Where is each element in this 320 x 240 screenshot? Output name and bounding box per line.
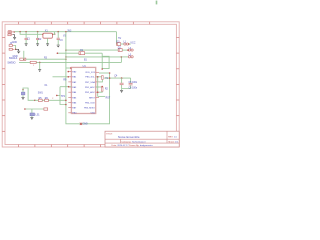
wire long vertical left	[66, 32, 110, 124]
ground under battery	[13, 37, 16, 39]
frame tick top 6	[100, 22, 102, 25]
title block divider row2	[105, 142, 179, 144]
wire SWDIO to ground	[39, 62, 41, 69]
wire bottom left net	[25, 108, 44, 110]
ground under crystal	[46, 44, 49, 46]
node J2 junction	[15, 49, 17, 51]
wire mid line L53	[57, 52, 102, 54]
svg-text:2: 2	[52, 98, 53, 100]
svg-text:SW1: SW1	[38, 93, 44, 95]
ground under C1	[25, 44, 28, 46]
node VCC junction at battery	[14, 31, 16, 33]
frame tick top 4	[67, 22, 69, 25]
wire VCC rail	[14, 31, 116, 33]
off-sheet green mark	[156, 1, 158, 5]
wire LED1 stub	[129, 43, 131, 45]
node R2 top dot	[101, 86, 103, 88]
LED3	[128, 56, 133, 58]
wire SW1 bottom to ground	[22, 95, 24, 97]
wire SW1 top stub	[22, 90, 24, 92]
capacitor C5	[122, 78, 133, 88]
frame tick left 7	[2, 130, 5, 132]
battery BT1 positive terminal	[8, 31, 14, 34]
wire J2 pin1 to node	[14, 46, 16, 50]
svg-text:VDD_3V3: VDD_3V3	[85, 72, 96, 74]
frame tick bottom 6	[100, 145, 102, 148]
node IC left pin1 dot	[68, 71, 70, 73]
node net stub dot	[56, 95, 58, 97]
frame tick top 3	[50, 22, 52, 25]
wire decoupling row right of IC	[104, 77, 131, 79]
wire buzzer drop	[31, 109, 33, 113]
node capacitor C4 junction	[121, 77, 123, 79]
svg-text:PB4_SCK: PB4_SCK	[85, 102, 95, 104]
wire SW1 to row	[23, 88, 35, 100]
svg-text:VSS: VSS	[91, 113, 96, 115]
node L57 L62 join	[121, 56, 123, 58]
svg-text:GND: GND	[83, 123, 88, 125]
svg-text:PB1_ADC: PB1_ADC	[85, 86, 95, 89]
wire NRST to label	[98, 95, 106, 97]
wire loop rectangle	[102, 56, 109, 68]
node rail dot C	[37, 31, 39, 33]
resistor R3 inline	[20, 58, 26, 60]
frame tick bottom 2	[34, 145, 36, 148]
frame tick top 2	[34, 22, 36, 25]
diode D1 inline	[79, 52, 85, 55]
node SWCLK to vertical	[65, 58, 67, 60]
frame tick bottom 3	[50, 145, 52, 148]
resistor R5	[38, 99, 42, 101]
frame tick left 5	[2, 99, 5, 101]
node LED1 dot	[128, 43, 130, 45]
wire bracket vertical	[60, 87, 66, 105]
svg-text:1: 1	[33, 65, 34, 67]
svg-text:C5 100n: C5 100n	[129, 82, 138, 84]
sheet frame inner	[5, 24, 176, 144]
wire crystal right to rail	[53, 32, 55, 35]
svg-text:TP1: TP1	[61, 96, 66, 98]
svg-text:1: 1	[115, 77, 116, 79]
frame tick bottom 9	[149, 145, 151, 148]
IC left pin names	[72, 71, 77, 115]
svg-text:SWCLK: SWCLK	[9, 57, 18, 60]
title block outline	[105, 131, 179, 147]
svg-text:C6 100n: C6 100n	[129, 87, 138, 89]
node resistor row start	[34, 100, 36, 102]
wire stub above SWCLK	[23, 51, 25, 59]
node LED2 dot	[127, 49, 129, 51]
node L53 start	[57, 52, 59, 54]
crystal X1 pin left	[42, 34, 43, 35]
resistor R7	[44, 108, 48, 110]
node NRST bottom	[97, 91, 99, 93]
frame tick right 1	[176, 37, 179, 39]
frame tick left 1	[2, 37, 5, 39]
svg-text:Date: 2024-07-17 Drawn By: bod: Date: 2024-07-17 Drawn By: bodgemaster	[112, 144, 153, 147]
frame tick bottom 8	[132, 145, 134, 148]
ground under SW1	[21, 97, 24, 99]
wire D3 to LED1	[121, 43, 124, 45]
wire IC left pin2	[53, 76, 69, 78]
LED1	[124, 43, 129, 45]
wire crystal ground stub	[47, 38, 49, 43]
IC U1 body	[71, 67, 95, 113]
node SWDIO dot	[39, 62, 41, 64]
connector J2 pin 1	[9, 45, 14, 47]
node rail dot F	[65, 31, 67, 33]
frame tick right 5	[176, 99, 179, 101]
frame tick left 2	[2, 52, 5, 54]
node SW1 top dot	[22, 89, 24, 91]
frame tick left 4	[2, 83, 5, 85]
frame tick right 7	[176, 130, 179, 132]
buzzer B1 body	[30, 113, 35, 116]
ground under C3	[57, 45, 60, 47]
node decoupling row left	[109, 77, 111, 79]
IC left pin stubs	[68, 72, 71, 113]
frame tick right 2	[176, 52, 179, 54]
frame tick top 8	[132, 22, 134, 25]
capacitor C4	[120, 78, 124, 90]
frame tick bottom 7	[116, 145, 118, 148]
ground under SWDIO	[38, 70, 41, 72]
svg-text:PB5_MISO: PB5_MISO	[84, 108, 95, 110]
frame tick right 6	[176, 115, 179, 117]
wire L57 to LED3	[121, 56, 128, 58]
wire bracket to IC pin row4	[60, 86, 71, 88]
ground under J2	[17, 51, 20, 53]
frame tick right 3	[176, 68, 179, 70]
svg-text:NRST: NRST	[89, 97, 96, 99]
node bracket pin dot	[68, 86, 70, 88]
svg-text:SWDIO: SWDIO	[7, 61, 15, 64]
wire SWCLK	[19, 58, 66, 60]
wire L53 corner down	[101, 53, 103, 69]
LED2	[128, 49, 133, 51]
node bottom left stub	[24, 108, 26, 110]
wire mid line L50	[66, 49, 118, 51]
wire row1 diode D3	[117, 43, 121, 46]
resistor R1 right of IC	[96, 76, 104, 82]
node rail dot B	[25, 31, 27, 33]
frame tick bottom 1	[18, 145, 20, 148]
wire mid line L57	[66, 56, 122, 58]
node L57 start	[65, 56, 67, 58]
title block divider vertical	[166, 131, 168, 143]
IC right pin stubs	[96, 72, 99, 97]
svg-text:TITLE:: TITLE:	[106, 133, 113, 135]
svg-text:PB6_SCL: PB6_SCL	[85, 77, 95, 79]
frame tick bottom 5	[83, 145, 85, 148]
ground under C2	[36, 44, 39, 46]
crystal X1 body	[43, 33, 53, 38]
wire second rail	[20, 32, 42, 35]
wire SWDIO long	[19, 61, 121, 63]
node loop bottom dot	[101, 68, 103, 70]
svg-text:REV: 1.0: REV: 1.0	[168, 137, 177, 139]
pushbutton SW1 body	[21, 92, 25, 95]
node L50 start	[65, 49, 67, 51]
capacitor C3 drop	[57, 32, 60, 45]
wire resistor row	[35, 99, 66, 101]
svg-text:3V3: 3V3	[67, 30, 72, 32]
svg-text:Company: Techromancer: Company: Techromancer	[121, 141, 146, 144]
title block divider company	[119, 139, 121, 143]
sheet frame outer	[2, 22, 179, 147]
connector J2 pin 2	[9, 48, 14, 50]
node row end dot	[65, 100, 67, 102]
wire VCC rail drop right	[116, 32, 118, 44]
node IC left pin2 dot	[68, 76, 70, 78]
frame tick bottom 4	[67, 145, 69, 148]
node right vertical top	[109, 72, 111, 74]
wire buzzer to ground	[31, 116, 33, 117]
node SWCLK dot	[23, 58, 25, 60]
wire J2 node to ground	[16, 49, 19, 51]
frame tick top 5	[83, 22, 85, 25]
wire D2 to LED2	[122, 49, 128, 51]
capacitor C2 drop	[36, 32, 39, 44]
IC right pin names	[84, 72, 96, 115]
frame tick top 1	[18, 22, 20, 25]
svg-text:GND: GND	[12, 42, 17, 44]
wire battery minus to ground	[13, 35, 15, 38]
node bracket bottom join	[65, 104, 67, 106]
frame tick left 6	[2, 115, 5, 117]
title block divider row1	[105, 138, 179, 140]
diode D2	[118, 49, 122, 52]
svg-text:Noise Ensemble: Noise Ensemble	[118, 135, 140, 139]
frame tick right 4	[176, 83, 179, 85]
node rail dot D	[54, 33, 56, 35]
wire IC right pin row1	[99, 72, 110, 74]
svg-text:RST: RST	[106, 98, 111, 100]
crystal X1 pin right	[52, 34, 53, 35]
frame tick left 3	[2, 68, 5, 70]
node IC pin VDD dot	[70, 67, 72, 69]
svg-text:LS1: LS1	[36, 115, 41, 117]
resistor R4 inline	[30, 61, 36, 63]
node rail dot A	[19, 31, 21, 33]
frame tick top 9	[149, 22, 151, 25]
wire to IC pin VDD	[66, 67, 72, 69]
svg-text:PB2_ADC: PB2_ADC	[85, 91, 95, 94]
capacitor C1 drop	[25, 32, 28, 44]
wire NRST vertical	[97, 77, 99, 97]
svg-text:VCC: VCC	[130, 41, 135, 44]
frame tick top 7	[116, 22, 118, 25]
ground under buzzer	[30, 117, 33, 119]
svg-text:PB7_SDA: PB7_SDA	[85, 81, 95, 84]
resistor R2 right of IC	[96, 87, 103, 92]
node NRST top	[97, 76, 99, 78]
wire net stub row5	[57, 94, 60, 96]
svg-text:Sheet: 1/1: Sheet: 1/1	[168, 141, 179, 144]
svg-text:5V: 5V	[118, 38, 121, 40]
resistor R6	[45, 99, 49, 101]
battery BT1 negative terminal	[8, 34, 13, 36]
node under IC wire	[80, 123, 82, 125]
wire SWDIO corner up	[120, 57, 122, 63]
node rail dot E	[57, 31, 59, 33]
no-connect flag under IC	[80, 123, 82, 125]
ground under C4	[120, 90, 123, 92]
